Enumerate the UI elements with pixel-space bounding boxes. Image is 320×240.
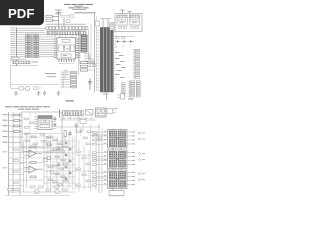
capacitor C12 (58, 146, 61, 151)
U7 right pins (127, 131, 136, 144)
title line 3 text (75, 12, 96, 13)
resistor network RN1 (top row of discrete cells) (46, 24, 88, 30)
capacitor C13 (58, 162, 61, 167)
ground between amplifier blocks (112, 148, 115, 191)
left input pin labels and wires (3, 112, 23, 195)
capacitor C5 electrolytic (88, 78, 92, 90)
connector CN8 bottom-right 3pin (117, 94, 125, 100)
U8 right pins (127, 152, 136, 165)
opamp U6A (24, 150, 42, 157)
U9 right pins (127, 172, 136, 185)
U1 left pin stubs (54, 38, 57, 57)
PDF badge (viewer overlay, decorative frame) (0, 0, 44, 25)
U7 left pins (103, 131, 108, 144)
connector CN1 left pin field wires (10, 28, 55, 67)
title block: schematic 1 heading text (64, 4, 93, 10)
input resistors R30..R33 (14, 114, 20, 132)
U4 left pins (34, 117, 38, 129)
power stubs above module M1 (120, 10, 132, 14)
parts inside preamp box (22, 118, 62, 148)
connector CN9 right of selector (107, 108, 118, 113)
power amplifier IC U9 (108, 168, 128, 191)
crystal Y1 with load capacitors (55, 10, 64, 26)
power amplifier IC U7 (108, 128, 128, 151)
row of trimmers VR1..VR8 (60, 110, 84, 118)
net labels right middle (115, 52, 126, 78)
transistor Q6 (44, 158, 48, 162)
U1 bottom pin stubs (58, 59, 75, 63)
connector CN6 small pin header (122, 83, 126, 97)
input jack J1 area parts (75, 120, 102, 140)
capacitor C10 (68, 131, 71, 137)
wire bottom rail (11, 84, 59, 86)
U4 right pins (52, 117, 56, 129)
volume pot VR9 (64, 131, 66, 142)
wire row under top row (56, 115, 100, 133)
net labels near CN7 (45, 73, 56, 77)
connector CN4b rightmost lower pin header (136, 81, 140, 97)
wire vertical long net at x94 (94, 13, 96, 92)
opamp U6B (24, 166, 42, 173)
vertical rails mid-left (20, 112, 44, 195)
wire risers between networks and U1 (56, 30, 77, 38)
capacitor C1 (46, 15, 59, 17)
snubber caps above diode row (116, 36, 125, 39)
power amplifier IC U8 (108, 148, 128, 171)
coupling network to amplifiers (75, 122, 107, 192)
transistor Q1 (34, 87, 43, 90)
filter component above bus (96, 21, 100, 26)
IC U5 input selector (96, 108, 107, 117)
U2 support parts (119, 25, 127, 28)
transistor Q3 (44, 156, 51, 160)
connector CN3 right edge pin header (133, 49, 140, 80)
U9 left pins (103, 171, 108, 184)
coupling capacitors C8 C9 right of U4 (54, 117, 57, 127)
transistor Q7 (50, 170, 54, 174)
module M1 box with driver ICs (115, 14, 142, 32)
vertical feed wires to amp blocks (96, 124, 102, 193)
feedback resistors around opamps (20, 146, 44, 178)
transistor Q5 bottom (55, 189, 59, 193)
discrete cluster resistors caps mid (48, 136, 71, 186)
IC U4 tone controller (38, 116, 52, 130)
wires dense mesh mid-bottom (22, 134, 75, 191)
net name labels under trimmer row (62, 117, 93, 120)
left small resistors column (14, 149, 19, 184)
U1 right pin stubs (76, 38, 81, 57)
DIP switch SW1 (11, 57, 39, 65)
connector CN7 keypad header (60, 70, 77, 88)
wire bus from CN2 down right (staircase) (79, 24, 96, 75)
input RC filters for amplifiers (92, 131, 103, 185)
buzzer BZ1 (11, 86, 30, 91)
bus ribbon columns (dark vertical stripes) (96, 28, 116, 93)
reset circuit parts right of crystal (60, 15, 74, 23)
transistor Q4 bottom (35, 189, 39, 193)
U3 support parts (131, 25, 139, 28)
figure number text (128, 99, 134, 100)
driver IC U3 (129, 15, 139, 25)
resistor array R12..R22 column 2 (33, 34, 39, 58)
capacitor C2 (46, 19, 59, 21)
connector CN4 lower right pin header (128, 81, 135, 98)
U8 left pins (103, 151, 108, 164)
net label below bus (103, 93, 109, 96)
switch bank S1 (86, 110, 94, 116)
wire left drop to audio cluster (10, 65, 12, 88)
left crossing wires (3, 147, 45, 186)
transistor Q2 (44, 142, 51, 146)
wire below bus (106, 92, 108, 100)
diode D1 (115, 40, 121, 42)
resistor array R1..R11 column 1 (26, 34, 32, 58)
diode D2 (122, 40, 128, 42)
preamp section box (22, 112, 62, 152)
wire stubs above bus (100, 19, 111, 28)
connector CN2 hatched vertical header (81, 35, 87, 52)
output connector CN10 bottom right (109, 191, 124, 198)
title block: schematic 2 heading text (5, 106, 50, 109)
driver IC U2 (117, 15, 127, 25)
resistor stack R20 R21 R22 (81, 62, 95, 72)
ground symbols bottom left (14, 91, 60, 96)
wire parallel net (95, 16, 97, 90)
output terminals right (139, 132, 145, 180)
diode D3 (128, 40, 134, 42)
microcontroller U1 (57, 38, 76, 60)
resistor network RN2 (second celled row) (47, 31, 86, 35)
output coupling caps row bottom (5, 186, 75, 196)
page number text (Pagina) (66, 100, 75, 101)
wire net right area (113, 33, 134, 90)
connector CN5 (3-pin, left of module) (110, 23, 115, 31)
svg-text:PDF: PDF (8, 6, 34, 21)
